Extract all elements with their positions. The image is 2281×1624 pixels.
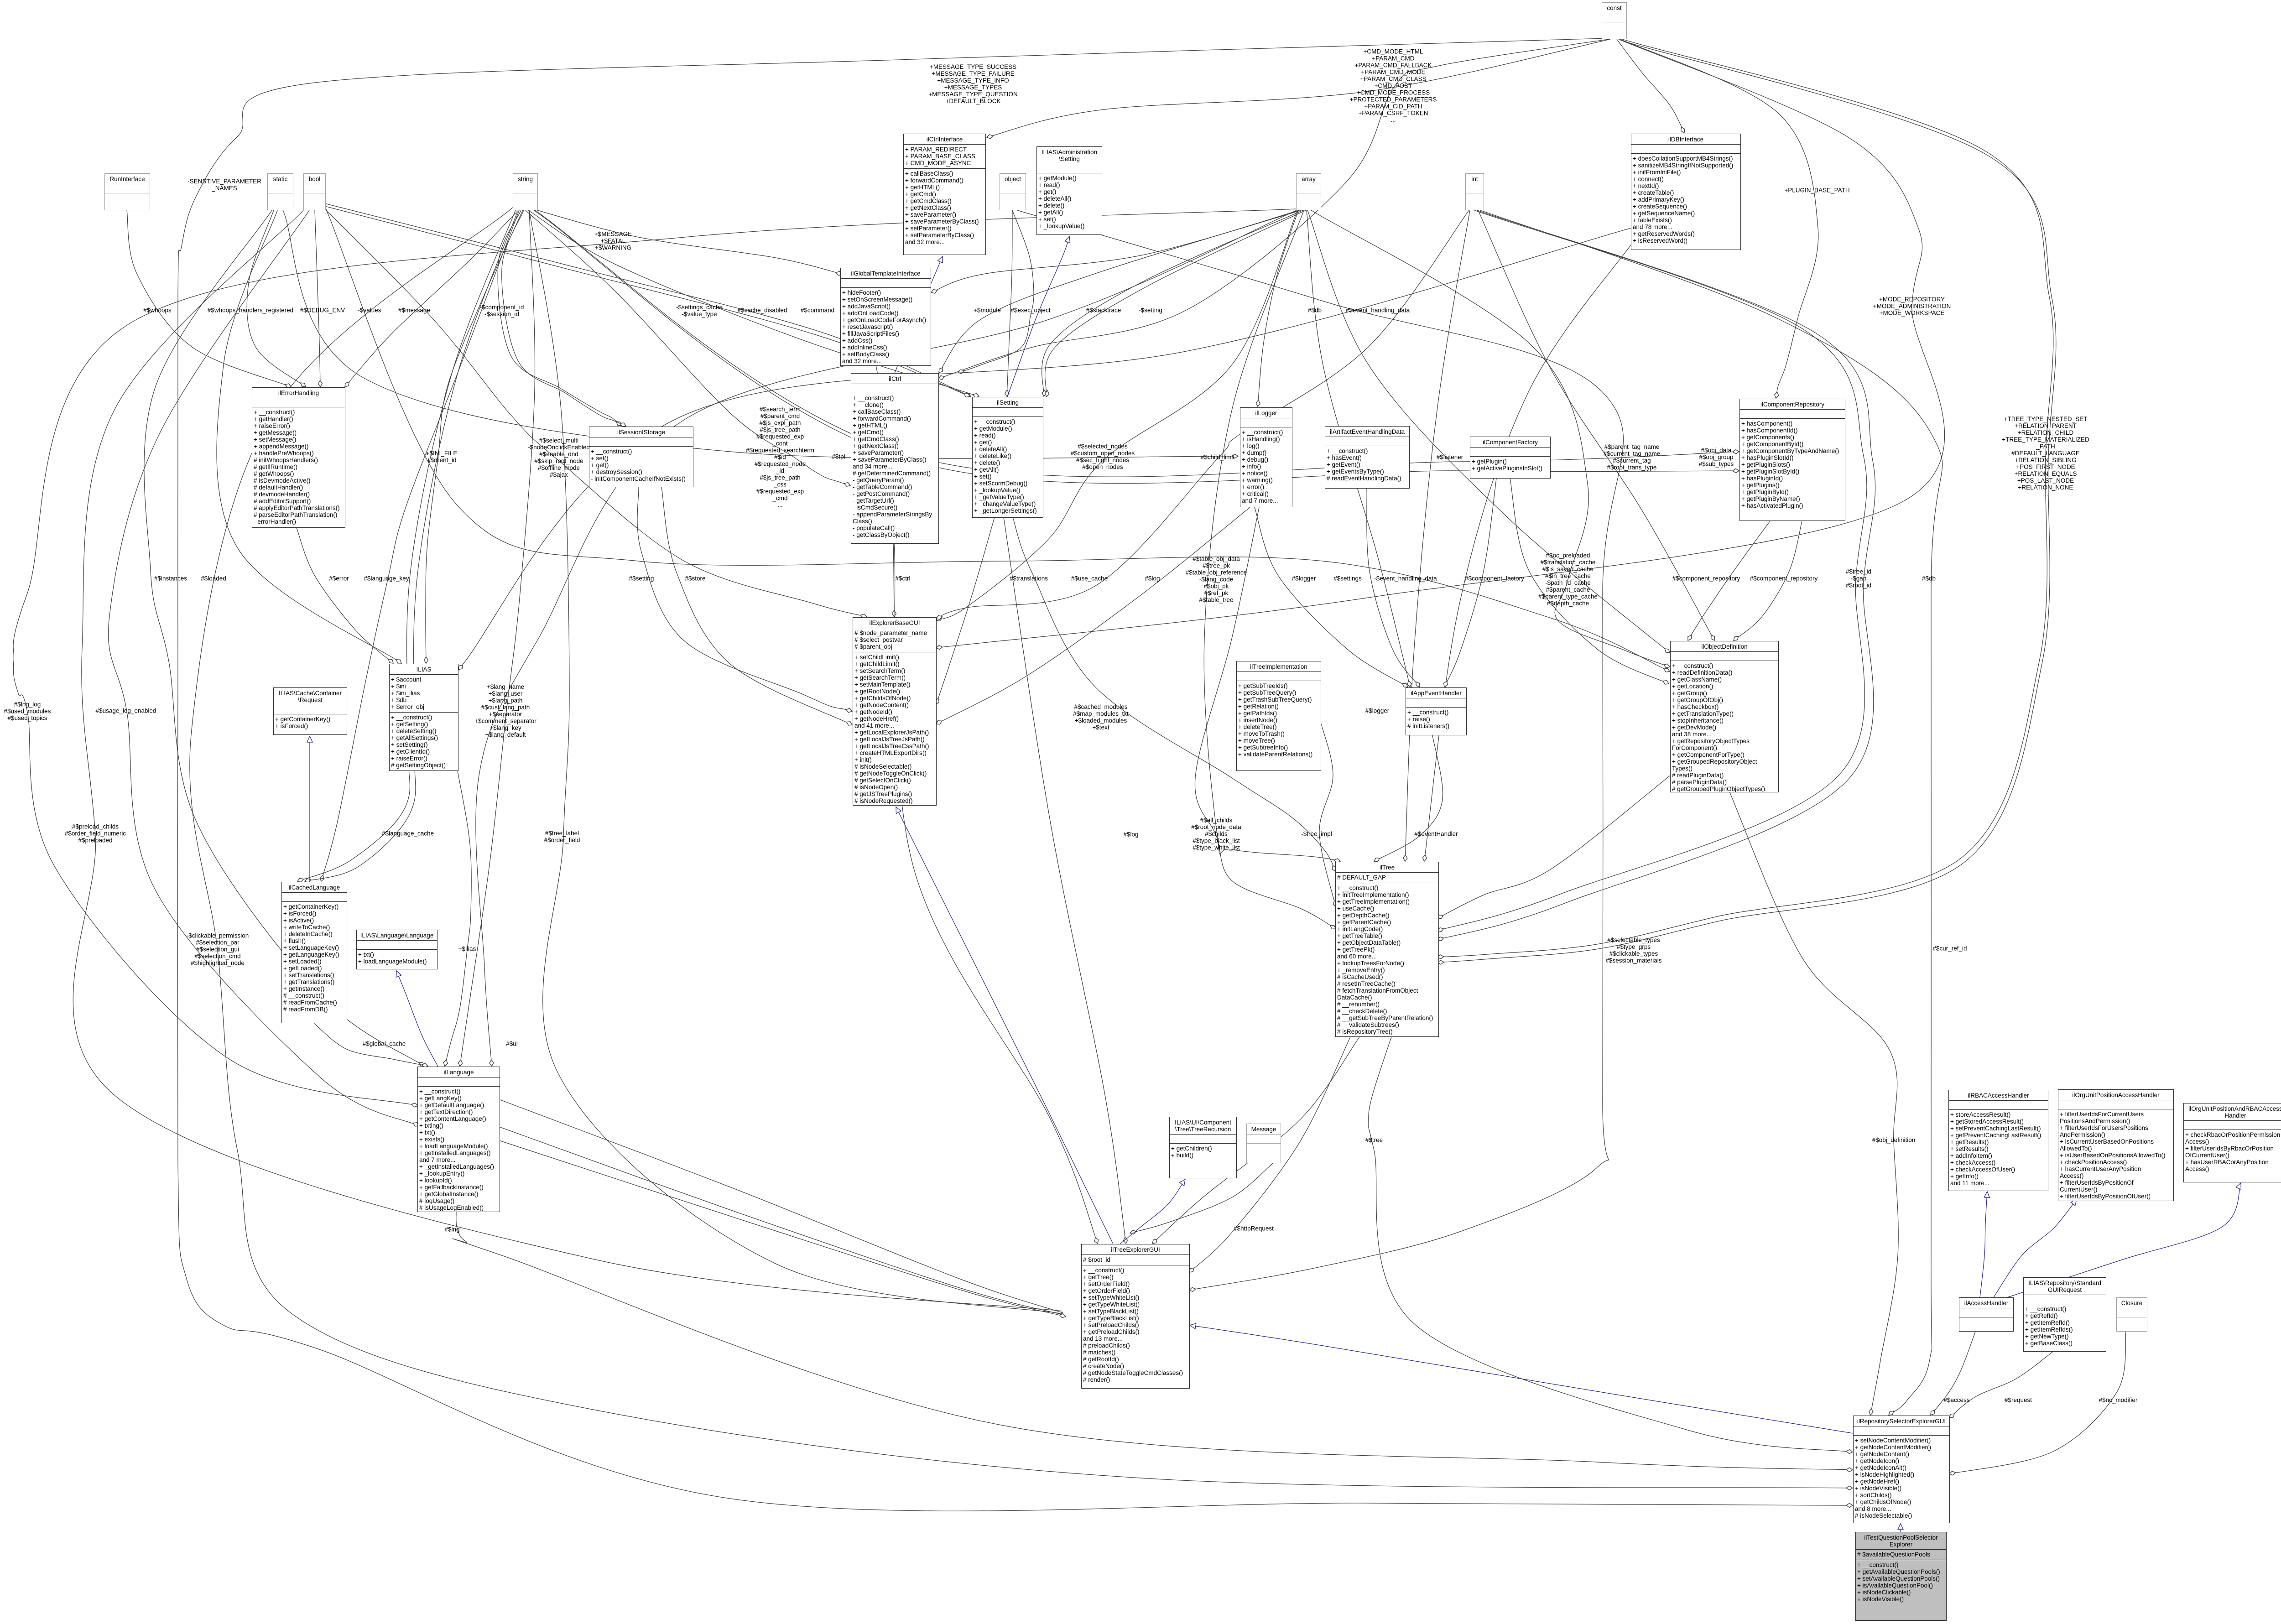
node label #$cached_modules — [1073, 703, 1129, 731]
node label #$db — [1308, 307, 1322, 314]
node label +$ilias — [458, 946, 476, 953]
wire ILIAS to ilLanguage — [445, 771, 471, 1066]
wire object to TreeExplorer httpRequest — [1017, 210, 1623, 1290]
wire ilLogger to ilAppEventHandler — [1255, 507, 1408, 687]
wire int to ilObjectDefinition — [1478, 210, 1714, 640]
class box ilRBACAccessHandler — [1948, 1090, 2048, 1191]
wire string to ilTreeExplorerGUI — [529, 210, 1063, 1314]
wire string to ilCtrl — [526, 210, 850, 485]
node label +MODE_REPOSITORY — [1873, 296, 1951, 317]
wire ilSetting to TreeExplorer — [1004, 517, 1126, 1244]
wire string to ilCachedLanguage — [321, 210, 519, 881]
wire string to ilGlobalTemplateInterface — [531, 208, 842, 274]
node label -$setting — [1139, 307, 1162, 314]
node label -$component_id — [480, 304, 524, 318]
wire ilComponentRepository to ilObjectDefinition a — [1688, 521, 1770, 640]
wire ilCtrl to TreeExplorer — [894, 544, 1098, 1244]
wire ilLanguage to TreeExplorer b — [499, 1127, 1063, 1315]
wire const to ilCtrlInterface — [987, 39, 1610, 137]
node label +CMD_MODE_HTML — [1350, 48, 1437, 124]
node label #$component_repository — [1672, 575, 1740, 582]
wire int to ilTree via tree_id a — [1437, 210, 1867, 931]
wire ilLanguage isa LangLanguage — [396, 971, 438, 1067]
node label #$table_obj_data — [1186, 556, 1247, 604]
node label -$tree_impl — [1301, 831, 1332, 838]
wire ilComponentRepository to ilObjectDefinition b — [1734, 521, 1802, 640]
wire bool to ilExplorerBaseGUI — [325, 209, 867, 617]
node label #$parent_tag_name — [1604, 443, 1661, 471]
class box TreeRecursion — [1169, 1117, 1237, 1178]
class box AdminSetting — [1036, 146, 1102, 235]
class box ILIAS — [389, 664, 458, 771]
wire ilObjectDefinition to ilTree — [1437, 776, 1670, 918]
wire static to ilErrorHandling — [247, 210, 306, 387]
node label #$error — [329, 575, 349, 582]
class box ilRepositorySelectorExplorerGUI — [1853, 1416, 1950, 1523]
node label #$exec_object — [1010, 307, 1050, 314]
node label #$child_limit — [1201, 454, 1234, 461]
class box ilComponentFactory — [1470, 437, 1551, 479]
wire array to ilObjectDefinition — [1307, 210, 1670, 653]
wire array to ilCtrl — [939, 210, 1301, 373]
node label #$oc_preloaded — [1538, 552, 1598, 607]
class box ilDBInterface — [1631, 134, 1741, 250]
node label +TREE_TYPE_NESTED_SET — [2002, 416, 2089, 498]
node label #$ui — [506, 1041, 518, 1047]
wire ilAccessHandler isa ilRBAC — [1980, 1192, 1987, 1297]
wire RepoSelector isa TreeExplorer — [1190, 1325, 1853, 1433]
wire array to ilLanguage left loop — [13, 209, 1296, 1106]
wire ilAccessHandler to RepoSelector — [1931, 1332, 1975, 1415]
class box ilAccessHandler — [1959, 1297, 2014, 1332]
wire bool to ilSetting a — [325, 203, 971, 396]
class box Message — [1246, 1124, 1281, 1163]
wire ilErrorHandling to ILIAS — [297, 528, 393, 663]
node label -$values — [358, 307, 381, 314]
wire string to ilCachedLanguage topleft b — [305, 212, 517, 881]
wire ilLogger to ilTree — [1195, 507, 1336, 929]
node label #$usage_log_enabled — [96, 708, 156, 714]
node label #$tpl — [832, 453, 845, 460]
class box ilGlobalTemplateInterface — [840, 268, 931, 366]
node label #$tree — [1365, 1137, 1383, 1144]
wire object to ilSetting — [1007, 210, 1012, 396]
wire string to ilComponentRepository b — [532, 209, 1739, 484]
node label +MESSAGE_TYPE_SUCCESS — [928, 63, 1017, 104]
node label #$ctrl — [895, 575, 910, 582]
wire ilObjectDefinition to RepoSelector — [1729, 791, 1898, 1415]
wire ilTreeImplementation to ilTree — [1319, 721, 1336, 907]
node label #$event_handling_data — [1346, 307, 1410, 314]
class box ilSetting — [972, 397, 1043, 518]
node label #$stacktrace — [1086, 307, 1121, 314]
node label #$cur_ref_id — [1932, 945, 1967, 952]
node label +$module — [974, 307, 1001, 314]
node label +$lang_name — [474, 683, 536, 738]
node label #$all_childs — [1191, 817, 1241, 851]
wire bool to ilSetting b — [325, 206, 970, 396]
wire static to ilLanguage — [144, 210, 424, 1066]
node label #$nc_modifier — [2099, 1397, 2138, 1404]
node label #$language_cache — [382, 830, 434, 837]
node label #$listener — [1437, 454, 1463, 461]
node label #$command — [801, 307, 834, 314]
class box ilLogger — [1240, 407, 1292, 507]
node label #$setting — [629, 575, 654, 582]
node label #$select_multi — [528, 437, 590, 478]
wire TreeExplorer isa TreeRecursion — [1120, 1179, 1185, 1244]
node label -$clickable_permission — [187, 932, 249, 967]
wire const to ilTree right — [1437, 39, 2053, 957]
node label #$tree_label — [544, 830, 580, 843]
wire array to ilLanguage long — [476, 210, 1297, 1066]
class box ilArtifactEventHandlingData — [1325, 426, 1410, 489]
node label +PLUGIN_BASE_PATH — [1784, 187, 1849, 194]
wire const mega to RepoSelector — [177, 38, 1853, 1511]
class box ilTree — [1335, 862, 1439, 1037]
class box static — [267, 173, 293, 210]
node label #$loaded — [201, 575, 226, 582]
node label #$component_repository — [1750, 575, 1818, 582]
class box LangLanguage — [356, 930, 437, 969]
class box ilErrorHandling — [252, 387, 345, 528]
node label #$logger — [1365, 708, 1390, 714]
wire static to ILIAS — [217, 210, 401, 663]
wire ilTree to TreeExplorer top — [1152, 1037, 1359, 1244]
wire Message to TreeExplorer — [1130, 1163, 1273, 1233]
wire ilDBInterface to ILIAS — [458, 228, 1631, 670]
node label +$INI_FILE — [426, 450, 458, 463]
wire string to ilCachedLanguage topleft a — [297, 210, 516, 881]
node label #$search_term — [746, 406, 814, 509]
wire TreeExplorer isa ilExplorerBaseGUI — [896, 807, 1113, 1244]
wire string to ilErrorHandling — [345, 210, 518, 387]
node label #$access — [1943, 1397, 1969, 1404]
wire array to ilLogger — [1258, 210, 1298, 406]
wire array to oc_preloaded ObjectDef — [1311, 210, 1670, 667]
node label #$use_cache — [1071, 575, 1108, 582]
class box ilCtrlInterface — [903, 134, 986, 255]
class box ilOrgUnitPositionAccessHandler — [2058, 1089, 2174, 1201]
wire ilCachedLanguage to ilLanguage — [314, 1023, 428, 1066]
class box StdGUIRequest — [2023, 1277, 2106, 1352]
wire ilAppEventHandler to ilTree — [1374, 735, 1443, 861]
node label #$settings — [1333, 575, 1362, 582]
wire string to ilSessionIStorage a — [498, 210, 621, 426]
wire int to RepoSelector — [1480, 210, 1942, 1415]
node label #$obj_definition — [1872, 1137, 1916, 1144]
node label #$selected_nodes — [1071, 443, 1135, 470]
class box RunInterface — [104, 173, 150, 210]
class box array — [1296, 173, 1321, 210]
class box const — [1602, 2, 1627, 39]
wire const to ilComponentRepository — [1620, 39, 1818, 398]
wire const to ilCtrl — [938, 39, 1609, 379]
wire array to ilAppEventHandler — [1307, 210, 1410, 687]
wire ilSessionIStorage to ilExplorerBaseGUI b — [661, 487, 852, 725]
wire ilDBInterface to ilTree — [1424, 242, 1633, 861]
class box ilOrgUnitPositionAndRBAC — [2183, 1103, 2281, 1182]
node label #$request — [2005, 1397, 2032, 1404]
wire string to ilLanguage — [460, 210, 535, 1066]
class box ilAppEventHandler — [1406, 687, 1467, 735]
wire ilLanguage to TreeExplorer a — [499, 1099, 1063, 1313]
wire bool to ilTreeExplorerGUI — [73, 210, 1062, 1311]
wire string to RepoSelector long — [190, 208, 1853, 1488]
class box ilTreeExplorerGUI — [1081, 1244, 1190, 1389]
wire bool to ilErrorHandling — [315, 210, 320, 387]
wire StdGUIRequest to RepoSelector — [1949, 1352, 2053, 1418]
node label #$cache_disabled — [738, 307, 787, 314]
wire ilTree to TreeExplorer right a — [1189, 1037, 1350, 1272]
wire ilCtrl isa ilCtrlInterface — [895, 256, 943, 373]
node label #$message — [398, 307, 430, 314]
wire ilAccessHandler isa ilOrgUnitPos — [1994, 1199, 2077, 1297]
wire ilAccessHandler isa ilOrgUnitPosRBAC — [2007, 1183, 2241, 1297]
class box bool — [303, 173, 326, 210]
class box ilLanguage — [417, 1067, 500, 1212]
wire ilSetting to ilTree — [1013, 517, 1336, 871]
node label #$lng — [444, 1226, 459, 1233]
node label #$store — [685, 575, 705, 582]
class box string — [513, 173, 538, 210]
node label #$DEBUG_ENV — [300, 307, 345, 314]
node label #$translations — [1010, 575, 1048, 582]
wire ilSetting isa AdminSetting — [1007, 236, 1069, 397]
node label -$event_handling_data — [1374, 575, 1437, 582]
wire array to ilSetting b — [1045, 210, 1306, 397]
wire object to ilCtrl — [958, 210, 1034, 373]
node label #$eventHandler — [1414, 831, 1458, 838]
wire ilSetting to ilExplorerBaseGUI — [936, 517, 995, 704]
wire ilComponentFactory to ilObjectDefinition — [1510, 479, 1669, 684]
wire const to ilTree right twin — [1437, 41, 2056, 963]
node label -SENSTIVE_PARAMETER — [187, 178, 261, 192]
wire ilLanguage to RepoSelector — [453, 1212, 1853, 1470]
wire ilComponentFactory to ilAppEventHandler — [1444, 479, 1496, 687]
class box CacheRequest — [273, 687, 347, 735]
node label #$component_factory — [1465, 575, 1524, 582]
wire string to ilComponentRepository a — [529, 206, 1739, 477]
wire ilTree to RepoSelector — [1369, 1037, 1853, 1452]
wire array to ilGlobalTemplateInterface — [931, 210, 1299, 292]
node label #$db — [1922, 575, 1936, 582]
wire int to ilExplorerBaseGUI — [936, 210, 1469, 619]
node label #$lng_log — [4, 701, 51, 722]
wire TestQPool isa RepoSelector — [1900, 1524, 1901, 1532]
wire const to ilDBInterface — [1617, 39, 1684, 133]
wire ilCachedLanguage isa CacheRequest — [309, 736, 310, 882]
wire RunInterface to ilErrorHandling — [127, 210, 291, 387]
wire int to ilTree via tree_id b — [1437, 210, 1875, 940]
node label #$tree_id — [1846, 568, 1871, 589]
class box Closure — [2116, 1297, 2147, 1332]
wire static to ilLogger — [283, 210, 1238, 458]
class box ilCachedLanguage — [281, 882, 347, 1023]
class box ilTestQuestionPoolSelectorExplorer — [1855, 1532, 1947, 1621]
class box ilSessionIStorage — [589, 427, 693, 487]
node label #$preload_childs — [65, 823, 126, 844]
wire Closure to RepoSelector — [1949, 1332, 2126, 1474]
wire array to ilSetting a — [1042, 210, 1303, 396]
node label #$httpRequest — [1234, 1225, 1274, 1232]
node label +$MESSAGE — [594, 231, 632, 251]
node label #$log — [1123, 831, 1138, 838]
class box ilObjectDefinition — [1670, 641, 1779, 792]
wire ilGlobalTemplateInterface to ilExplorerBaseGUI — [876, 365, 894, 617]
wire array to ilTree — [1204, 210, 1340, 861]
wire int to ilTree — [1405, 210, 1470, 861]
node label #$selectable_types — [1605, 937, 1661, 964]
wire bool to ilObjectDefinition long — [325, 206, 1670, 671]
class box ilComponentRepository — [1739, 399, 1845, 521]
wire array to ilExplorerBaseGUI — [936, 210, 1297, 620]
wire string to ilSessionIStorage b — [502, 210, 626, 426]
wire ilLanguage to TreeExplorer c — [499, 1140, 1066, 1317]
wire ilLogger to ilExplorerBaseGUI — [936, 507, 1250, 724]
node label #$logger — [1292, 575, 1316, 582]
wire bool to ilLanguage — [108, 210, 419, 1126]
node label #$obj_data — [1699, 447, 1734, 468]
wire const to ilExplorerBaseGUI — [936, 39, 1945, 648]
wire string to ILIAS — [426, 210, 523, 663]
wire ilSessionIStorage to ilExplorerBaseGUI a — [637, 487, 852, 711]
class box int — [1465, 173, 1484, 210]
wire ilArtifactEventHandlingData to ilAppEventHandler — [1367, 489, 1420, 687]
node label #$whoops — [143, 307, 172, 314]
class box ilCtrl — [851, 373, 939, 544]
wire string to ilSetting — [528, 210, 979, 396]
class box ilTreeImplementation — [1236, 661, 1321, 771]
node label #$whoops_handlers_registered — [208, 307, 293, 314]
node label #$global_cache — [363, 1041, 406, 1047]
node label -$settings_cache — [676, 304, 723, 318]
class box ilExplorerBaseGUI — [853, 617, 937, 806]
node label #$instances — [154, 575, 187, 582]
node label #$language_key — [364, 575, 409, 582]
node label #$log — [1145, 575, 1160, 582]
class box object — [1000, 173, 1026, 210]
